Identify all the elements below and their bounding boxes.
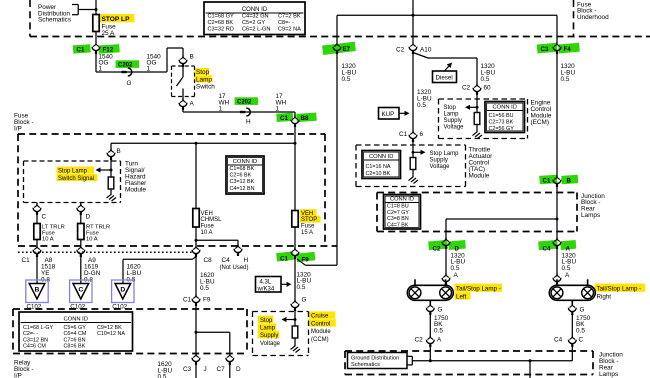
svg-text:Lamp: Lamp [196,76,212,83]
svg-text:C8: C8 [204,257,213,264]
svg-text:Fuse: Fuse [201,224,215,230]
svg-text:D: D [86,214,91,221]
svg-text:C102: C102 [27,304,42,311]
svg-text:Stop Lamp: Stop Lamp [430,151,460,157]
svg-text:C1: C1 [22,257,31,264]
svg-text:A: A [190,101,195,108]
svg-text:C102: C102 [112,304,127,311]
svg-text:10 A: 10 A [86,236,98,242]
svg-text:H: H [244,257,249,264]
svg-text:RT TRLR: RT TRLR [86,224,110,230]
svg-text:4.3L: 4.3L [260,280,272,286]
svg-text:Ground Distribution: Ground Distribution [351,355,399,361]
svg-text:C7=6 BN: C7=6 BN [64,337,86,343]
svg-text:15 A: 15 A [301,230,313,236]
svg-text:E7: E7 [343,46,351,53]
svg-text:C202: C202 [237,100,252,106]
svg-text:C1=16 NA: C1=16 NA [366,164,391,170]
svg-text:Stop Lamp: Stop Lamp [58,168,88,174]
svg-text:Voltage: Voltage [430,164,451,170]
svg-text:A: A [454,272,459,279]
svg-text:B: B [190,54,194,61]
svg-text:A: A [437,337,442,344]
svg-text:C4: C4 [222,257,231,264]
svg-text:C2=56 GY: C2=56 GY [489,126,515,132]
svg-text:Switch: Switch [196,84,215,91]
svg-text:C8=- -: C8=- - [278,20,294,26]
svg-text:0.5: 0.5 [576,328,585,335]
svg-text:C102: C102 [70,304,85,311]
svg-text:1: 1 [99,66,103,73]
svg-text:C: C [42,214,47,221]
svg-text:CONN ID: CONN ID [369,154,393,160]
svg-text:Schematics: Schematics [351,362,380,368]
svg-text:C1=8 BU: C1=8 BU [387,204,409,210]
svg-text:Supply: Supply [430,158,448,164]
svg-text:I/P: I/P [14,126,22,133]
svg-text:Underhood: Underhood [577,14,609,21]
svg-text:C2=- -: C2=- - [23,331,38,337]
svg-text:10 A: 10 A [201,230,213,236]
svg-text:D: D [455,245,460,252]
svg-text:CONN ID: CONN ID [493,104,517,110]
svg-text:CONN ID: CONN ID [64,316,88,322]
svg-text:C2=6 BK: C2=6 BK [230,173,252,179]
svg-text:B8: B8 [301,115,309,122]
svg-text:C2=7 GY: C2=7 GY [387,210,409,216]
svg-text:Switch Signal: Switch Signal [58,176,94,182]
svg-text:Control: Control [311,321,330,327]
svg-text:C4=6 CM: C4=6 CM [23,344,46,350]
svg-text:I/P: I/P [14,372,22,378]
svg-text:(Not Used): (Not Used) [220,265,249,271]
svg-text:25 A: 25 A [102,30,116,37]
svg-text:C2: C2 [415,337,424,344]
svg-text:Voltage: Voltage [444,125,465,131]
svg-text:C1: C1 [77,47,85,54]
svg-text:G: G [127,80,132,87]
svg-text:C4=7 BK: C4=7 BK [387,222,409,228]
svg-text:Tail/Stop Lamp -: Tail/Stop Lamp - [456,285,501,292]
svg-text:Stop: Stop [260,318,273,324]
svg-text:Left: Left [456,293,467,300]
svg-text:(CCM): (CCM) [311,337,329,343]
svg-text:C1: C1 [280,256,288,263]
svg-text:0.5: 0.5 [158,374,167,378]
svg-text:F9: F9 [203,297,211,304]
svg-text:C6=2 L-GN: C6=2 L-GN [242,26,270,32]
svg-text:C4: C4 [543,245,551,252]
svg-text:C3=8 BN: C3=8 BN [387,216,409,222]
svg-text:H: H [246,119,251,126]
svg-text:Lamps: Lamps [599,371,618,378]
svg-text:Module: Module [311,329,331,335]
svg-text:VEH: VEH [201,211,213,217]
svg-text:C9=12 BK: C9=12 BK [97,325,122,331]
svg-text:KUP: KUP [382,111,395,118]
svg-text:C4=32 GN: C4=32 GN [242,14,269,20]
svg-text:60: 60 [484,85,492,92]
svg-text:C9=2 NA: C9=2 NA [278,26,301,32]
svg-text:D: D [236,366,241,373]
svg-text:Stop: Stop [196,69,210,76]
svg-text:C: C [579,337,584,344]
svg-text:C1=68 L-GY: C1=68 L-GY [23,325,54,331]
svg-text:Lamps: Lamps [581,212,600,219]
svg-text:Fuse: Fuse [301,224,315,230]
svg-text:C4: C4 [554,337,563,344]
svg-text:10 A: 10 A [42,236,54,242]
svg-text:C3=32 RD: C3=32 RD [208,26,234,32]
svg-text:C4=12 BN: C4=12 BN [230,186,255,192]
svg-text:G: G [580,306,585,313]
svg-text:G: G [438,306,443,313]
svg-text:0.5: 0.5 [434,328,443,335]
svg-text:C: C [78,287,83,294]
svg-text:C10=12 NA: C10=12 NA [97,331,125,337]
svg-text:0.5: 0.5 [200,285,209,292]
svg-text:Right: Right [597,293,612,300]
svg-text:C2: C2 [396,47,405,54]
svg-text:w/K34: w/K34 [257,286,275,292]
svg-text:Voltage: Voltage [260,341,281,347]
svg-text:C2=10 BK: C2=10 BK [366,171,391,177]
svg-text:1: 1 [219,105,223,112]
svg-text:Supply: Supply [444,118,462,124]
svg-text:Schematics: Schematics [38,17,71,24]
svg-text:C2: C2 [433,245,441,252]
svg-text:CONN ID: CONN ID [242,7,268,13]
svg-text:(ECM): (ECM) [531,119,549,126]
svg-text:C2=73 BK: C2=73 BK [489,120,514,126]
svg-text:Stop: Stop [444,105,457,111]
svg-text:C7=2 BK: C7=2 BK [278,14,301,20]
svg-text:C1: C1 [543,177,551,184]
svg-text:CHMSL: CHMSL [201,217,223,223]
svg-text:A: A [565,272,570,279]
svg-text:C7: C7 [217,366,226,373]
svg-text:6: 6 [420,131,424,138]
svg-text:C1: C1 [280,115,288,122]
svg-text:C1=68 BK: C1=68 BK [230,166,255,172]
svg-text:C3=12 BN: C3=12 BN [23,337,48,343]
svg-text:B: B [567,177,572,184]
svg-text:C1=68 GY: C1=68 GY [208,14,235,20]
svg-text:0.5: 0.5 [481,76,490,83]
svg-text:1: 1 [147,66,151,73]
svg-text:CONN ID: CONN ID [390,196,414,202]
svg-text:C202: C202 [118,63,133,69]
svg-text:C3=12 BK: C3=12 BK [230,179,255,185]
svg-text:1: 1 [276,105,280,112]
svg-text:LT TRLR: LT TRLR [42,224,65,230]
svg-text:Diesel: Diesel [436,75,453,82]
svg-text:CONN ID: CONN ID [233,159,257,165]
svg-text:B: B [35,287,40,294]
svg-text:J: J [204,366,207,373]
svg-text:C6=4 CM: C6=4 CM [64,331,87,337]
svg-text:C2: C2 [462,85,471,92]
svg-text:A10: A10 [420,47,432,54]
svg-text:D: D [120,287,125,294]
svg-text:B: B [117,148,121,155]
svg-text:VEH: VEH [301,211,313,217]
svg-text:Module: Module [469,173,490,180]
svg-text:Lamp: Lamp [444,112,460,118]
svg-text:C5=6 GY: C5=6 GY [64,325,87,331]
svg-text:G: G [302,297,307,304]
svg-text:F9: F9 [302,257,310,264]
svg-text:Tail/Stop Lamp -: Tail/Stop Lamp - [597,285,642,292]
svg-text:Lamp: Lamp [260,326,276,332]
svg-text:STOP: STOP [301,217,317,223]
svg-text:C3: C3 [541,46,549,53]
svg-text:C3: C3 [183,366,192,373]
svg-text:Module: Module [125,187,146,194]
svg-text:C1: C1 [183,297,192,304]
svg-text:Supply: Supply [260,333,278,339]
svg-text:0.5: 0.5 [561,76,570,83]
svg-text:C5=2 GY: C5=2 GY [242,20,265,26]
svg-text:C1: C1 [399,131,408,138]
svg-text:STOP LP: STOP LP [102,16,131,23]
svg-text:C8=6 BK: C8=6 BK [64,344,86,350]
svg-text:C2=68 BK: C2=68 BK [208,20,234,26]
svg-text:C1=56 BU: C1=56 BU [489,113,514,119]
svg-text:F4: F4 [564,46,572,53]
svg-text:A: A [566,245,571,252]
svg-text:Cruise: Cruise [311,314,329,320]
svg-text:0.5: 0.5 [342,76,351,83]
svg-text:0.5: 0.5 [417,102,426,109]
svg-text:0.5: 0.5 [297,284,306,291]
